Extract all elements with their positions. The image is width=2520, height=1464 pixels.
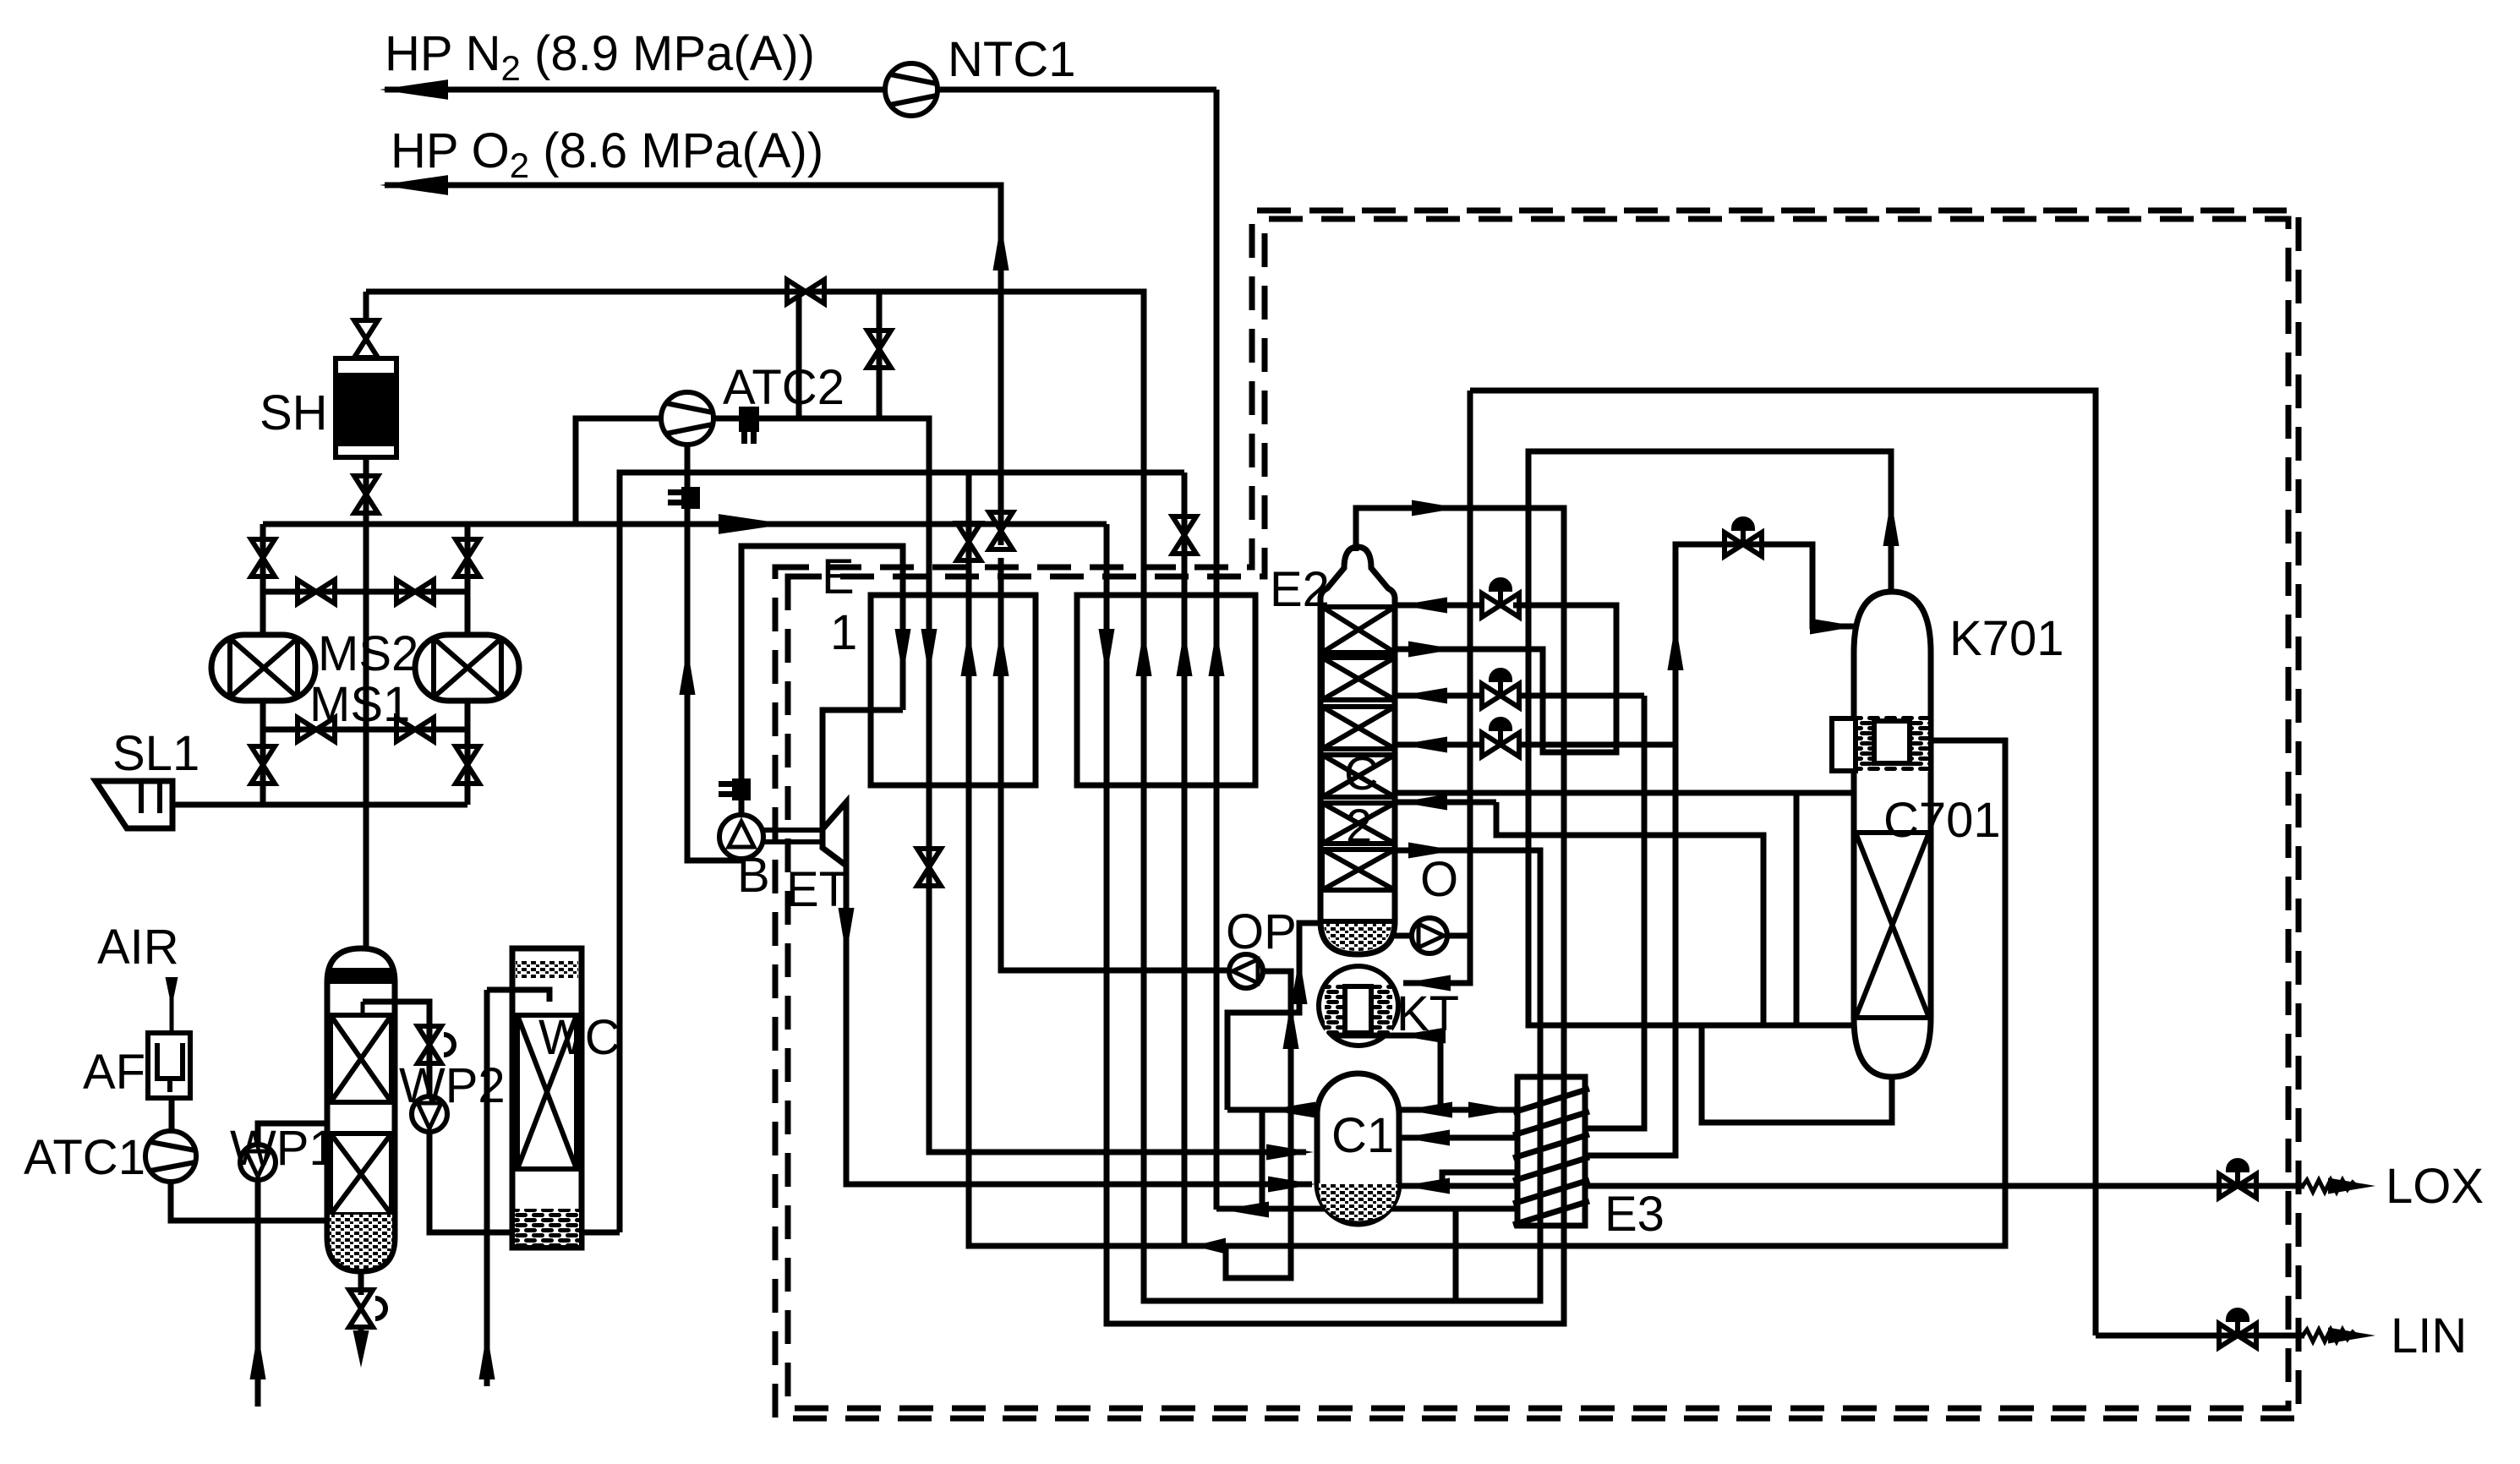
wire turbine air riser bbox=[1675, 544, 1854, 745]
wire 462 header to KT bbox=[1470, 391, 2096, 1336]
wire E1a line2 lower to C1 bbox=[929, 595, 1306, 1152]
motor plug B bbox=[719, 778, 751, 800]
valve crossover lower left bbox=[298, 718, 335, 741]
wire E2 in 881 from riser bbox=[1519, 742, 1675, 748]
wire SH stub above bbox=[364, 292, 369, 322]
arrow into E2 823 bbox=[1400, 687, 1447, 703]
arrow E1a line1 down bbox=[894, 629, 910, 676]
wire E1b line4 N2 riser bbox=[1214, 90, 1220, 1210]
pump OP bbox=[1229, 954, 1263, 988]
svg-text:E3: E3 bbox=[1604, 1187, 1665, 1242]
internals K701 adsorbent bbox=[1832, 716, 1928, 772]
valve crossover upper right bbox=[396, 580, 434, 604]
arrow into E2 881 bbox=[1400, 736, 1447, 752]
wire WP1 suction riser bbox=[255, 1180, 261, 1407]
wire AF to ATC1 bbox=[169, 1098, 175, 1133]
valve crossover upper left bbox=[298, 580, 335, 604]
arrow booster suction up bbox=[679, 647, 695, 695]
arrow HP O2 riser up bbox=[992, 223, 1009, 270]
wire E2 O out 1006 bbox=[1397, 850, 1540, 1226]
wire E2 out 938 bbox=[1397, 793, 1796, 1025]
valve above SH bbox=[354, 320, 378, 358]
arrow ET outlet down bbox=[838, 908, 854, 955]
column WT scrubber shell bbox=[327, 948, 395, 1271]
arrow E3 return left bbox=[1222, 1201, 1269, 1217]
arrow E2 out 1006 bbox=[1408, 842, 1456, 858]
wire E1b line2 lower to E3 bbox=[1144, 595, 1540, 1301]
wire E2 sump to header bbox=[1227, 923, 1320, 1110]
wire C1 upper inlet leg bbox=[1260, 1110, 1265, 1210]
valve below SH bbox=[354, 476, 378, 513]
wire E2 sump to pump bbox=[1395, 933, 1470, 939]
arrow sump header into E3 bbox=[1468, 1101, 1516, 1117]
wire WC return riser bbox=[620, 473, 1184, 1232]
arrow into K701 bbox=[1810, 618, 1857, 634]
valve drain WP2 line bbox=[418, 1026, 454, 1063]
wire MS left riser bbox=[260, 524, 266, 635]
valve E2 in 881 bbox=[1482, 719, 1519, 757]
exchanger E1 box B bbox=[1077, 595, 1255, 785]
wire B discharge to E1 bbox=[741, 546, 903, 815]
arrow column drain down bbox=[358, 1327, 364, 1336]
wire MS upper crossover bbox=[263, 589, 467, 595]
arrow LIN out bbox=[2328, 1327, 2375, 1343]
wire E2 in 881 stub bbox=[1397, 742, 1482, 748]
arrow riser up bbox=[1667, 623, 1683, 670]
valve V-O2 on riser bbox=[989, 512, 1013, 549]
svg-text:2: 2 bbox=[1346, 799, 1372, 852]
wire WP2 to WC bottom bbox=[429, 1131, 620, 1232]
wire E2 949 riser bbox=[1496, 802, 1763, 1025]
arrow into C1 bottom right bbox=[1402, 1177, 1450, 1194]
wire C701 bottom to LOX bbox=[1702, 1025, 1892, 1123]
arrow E2 out 768 bbox=[1408, 641, 1456, 657]
wire ATC2 suction leg bbox=[576, 418, 661, 524]
arrow E1b line2 up bbox=[1135, 629, 1151, 676]
arrow sump header toward C1 bbox=[1405, 1101, 1452, 1117]
arrow into E2 949 bbox=[1400, 794, 1447, 810]
valve E1b line3 bbox=[1173, 516, 1196, 554]
wire ATC1 to column bottom bbox=[171, 1182, 327, 1221]
packing C701 bbox=[1854, 833, 1931, 1018]
wire MS right downcomer bbox=[465, 701, 471, 805]
svg-text:SH: SH bbox=[260, 385, 328, 440]
wire column top outlet to WP2 bbox=[363, 1002, 429, 1099]
arrow AIR inlet bbox=[166, 977, 178, 1008]
wire SH stub below bbox=[364, 457, 369, 524]
wire ATC2 discharge to E1 bbox=[713, 418, 929, 595]
wire LOX jog to E3 bbox=[1442, 1172, 1517, 1186]
wire MS right riser bbox=[465, 524, 471, 635]
wire HP N2 riser from E1 bbox=[1214, 90, 1220, 595]
valve LIN bbox=[2219, 1310, 2256, 1347]
wire column top inner hook bbox=[361, 1002, 365, 1014]
arrow E1b line4 up bbox=[1208, 629, 1224, 676]
wire riser lower leg to E3 bbox=[1585, 745, 1675, 1155]
wire MS left downcomer bbox=[260, 701, 266, 805]
svg-text:B: B bbox=[737, 848, 770, 903]
wire E3 return via 1945 bbox=[1585, 696, 1644, 1128]
wire MS feed manifold bbox=[263, 522, 1107, 527]
packing E2 sections bbox=[1322, 607, 1395, 890]
wire HP O2 product line bbox=[385, 185, 1001, 545]
exchanger E3 bbox=[1513, 1077, 1589, 1226]
wire LIN battery limit bbox=[2303, 1330, 2356, 1341]
motor plug ATC2 discharge bbox=[739, 407, 759, 444]
pump E2 sump bbox=[1412, 918, 1447, 953]
wire E2 in 823 from 1945 bbox=[1519, 693, 1644, 699]
wire K701 top header bbox=[1528, 451, 1891, 1025]
coldbox boundary inner bbox=[788, 219, 2288, 1408]
column E2 shell bbox=[1320, 547, 1395, 954]
wire E1a line3 lower to K701 return bbox=[969, 473, 2005, 1246]
valve K701 feed bbox=[1725, 519, 1762, 556]
arrow C1 upper inlet bbox=[1268, 1101, 1315, 1117]
motor plug ATC2 lower bbox=[668, 487, 700, 509]
arrow E2 top line bbox=[1412, 500, 1459, 516]
valve LOX bbox=[2219, 1161, 2256, 1198]
exchanger E1 box A bbox=[871, 595, 1036, 785]
arrow into C1 right bbox=[1402, 1129, 1450, 1145]
wire E1b line1 lower to E3 bbox=[1107, 524, 1564, 1324]
arrow into E2 716 bbox=[1400, 597, 1447, 613]
wire column drain bbox=[358, 1271, 364, 1295]
arrow on K701 return line bbox=[1194, 1238, 1226, 1254]
wire bypass branch bbox=[877, 292, 883, 418]
valve MS right top bbox=[456, 539, 479, 576]
svg-text:WP1: WP1 bbox=[230, 1121, 336, 1176]
wire K701 side stub 938 bbox=[1796, 790, 1854, 796]
arrow OP suction up bbox=[1282, 1002, 1298, 1049]
valve E1a line2 lower bbox=[917, 849, 941, 886]
arrow WC riser bbox=[478, 1332, 495, 1379]
arrow HP N2 out bbox=[380, 79, 448, 100]
valve E2 in 823 bbox=[1482, 670, 1519, 707]
valve E2 in 716 bbox=[1482, 580, 1519, 617]
arrow LOX out bbox=[2328, 1177, 2375, 1194]
turbine KT bbox=[1319, 966, 1398, 1046]
svg-text:O: O bbox=[1420, 852, 1458, 907]
wire E3 left return to K701 line bbox=[1216, 1206, 1517, 1212]
svg-text:AF: AF bbox=[83, 1045, 145, 1100]
svg-text:HP N2 (8.9 MPa(A)): HP N2 (8.9 MPa(A)) bbox=[385, 26, 815, 88]
wire HP N2 product line bbox=[385, 87, 1216, 93]
arrow into KT bbox=[1403, 975, 1451, 991]
wire AIR inlet line bbox=[170, 977, 174, 1033]
arrow HP O2 out bbox=[380, 175, 448, 195]
valve MS left top bbox=[251, 539, 275, 576]
vessel K701 C701 shell bbox=[1854, 592, 1931, 1077]
vessel C1 bbox=[1317, 1073, 1399, 1224]
filter AF bbox=[148, 1033, 190, 1098]
arrow E1a line2 down bbox=[921, 629, 937, 676]
booster B bbox=[719, 815, 763, 859]
arrow into C1 lower left bbox=[1268, 1176, 1315, 1192]
wire silencer line bbox=[172, 802, 467, 808]
shaft B to ET bbox=[763, 830, 823, 842]
compressor ATC2 bbox=[661, 392, 713, 445]
valve bypass branch bbox=[867, 330, 891, 368]
svg-text:K701: K701 bbox=[1949, 611, 2064, 666]
adsorber MS1 bbox=[415, 635, 519, 701]
wire WC cooling water riser bbox=[484, 990, 490, 1386]
wire T leg to staircase bbox=[1453, 1209, 1459, 1301]
adsorber MS2 bbox=[211, 635, 315, 701]
column WC shell bbox=[512, 948, 582, 1248]
valve column drain bbox=[349, 1290, 385, 1327]
wire E2 recirc out 768 bbox=[1397, 605, 1616, 752]
wire MS lower crossover bbox=[263, 727, 467, 733]
arrow E1a line4 up bbox=[992, 629, 1009, 676]
wire KT bottom outlet bbox=[1332, 1035, 1440, 1110]
svg-text:ATC1: ATC1 bbox=[24, 1130, 145, 1185]
wire E1b line3 lower to KT bbox=[1182, 473, 1188, 1246]
arrow K701 top up bbox=[1883, 499, 1899, 546]
pump WP1 bbox=[240, 1144, 276, 1180]
svg-text:AIR: AIR bbox=[97, 920, 179, 975]
svg-text:LOX: LOX bbox=[2386, 1159, 2484, 1214]
wire E2 in 949 bbox=[1397, 800, 1496, 806]
svg-text:LIN: LIN bbox=[2391, 1308, 2467, 1363]
arrow E1a line3 up bbox=[960, 629, 976, 676]
svg-text:C: C bbox=[1344, 746, 1378, 800]
wire K701 side outlet bbox=[1931, 738, 2008, 744]
wire OP suction leg bbox=[1226, 971, 1291, 1278]
valve MS right bottom bbox=[456, 746, 479, 784]
compressor NTC1 bbox=[885, 63, 937, 116]
wire KT inlet drop bbox=[1403, 391, 1470, 983]
svg-text:C1: C1 bbox=[1331, 1108, 1394, 1163]
heater SH bbox=[336, 358, 396, 457]
wire LOX battery limit bbox=[2303, 1180, 2356, 1192]
wire E2 top to E3 bbox=[1356, 508, 1564, 1226]
wire ET outlet to C1 bbox=[846, 866, 1312, 1184]
arrow E1b line3 up bbox=[1176, 629, 1192, 676]
valve crossover lower right bbox=[396, 718, 434, 741]
wire E2 in 716 stub bbox=[1397, 603, 1482, 609]
pump WP2 bbox=[412, 1096, 447, 1132]
coldbox boundary outer bbox=[775, 210, 2299, 1418]
arrow E1b line1 down bbox=[1098, 629, 1114, 676]
arrow WP1 suction bbox=[249, 1332, 265, 1379]
arrow on manifold bbox=[719, 514, 787, 534]
wire WP1 discharge bbox=[258, 1123, 365, 1144]
turbine ET bbox=[823, 802, 846, 866]
silencer SL1 bbox=[96, 781, 172, 828]
valve E1a line3 bbox=[957, 523, 981, 560]
wire C1 to E3 mid bbox=[1399, 1135, 1519, 1141]
wire ET inlet from E1 bbox=[823, 710, 903, 829]
svg-text:1: 1 bbox=[830, 605, 857, 660]
svg-text:OP: OP bbox=[1226, 904, 1297, 959]
wire E2 in 823 stub bbox=[1397, 693, 1482, 699]
wire ATC2 lower coupling line bbox=[687, 445, 741, 860]
svg-text:NTC1: NTC1 bbox=[948, 32, 1075, 87]
arrow into C1 mid left bbox=[1266, 1144, 1314, 1160]
wire SH top line bbox=[366, 292, 1144, 595]
svg-text:WC: WC bbox=[538, 1010, 620, 1065]
wire LIN line bbox=[2096, 1333, 2304, 1339]
valve on SH top line bbox=[787, 280, 824, 303]
arrow E2 sump down leg bbox=[1291, 957, 1307, 1004]
svg-text:HP O2 (8.6 MPa(A)): HP O2 (8.6 MPa(A)) bbox=[391, 123, 823, 185]
svg-text:C701: C701 bbox=[1883, 793, 2001, 848]
wire WC inlet bbox=[487, 990, 549, 1002]
compressor ATC1 bbox=[145, 1131, 196, 1182]
wire E1a line4 to OP bbox=[1001, 558, 1231, 970]
wire LOX from C1 bbox=[1399, 1183, 2304, 1189]
arrow into KT bottom bbox=[1398, 1027, 1446, 1043]
svg-text:E2: E2 bbox=[1270, 562, 1330, 617]
wire branch to ATC2 line bbox=[796, 292, 802, 420]
wire central column riser bbox=[364, 524, 369, 948]
valve MS left bottom bbox=[251, 746, 275, 784]
wire sump header to E3 bbox=[1227, 1107, 1519, 1113]
svg-text:SL1: SL1 bbox=[112, 726, 200, 781]
